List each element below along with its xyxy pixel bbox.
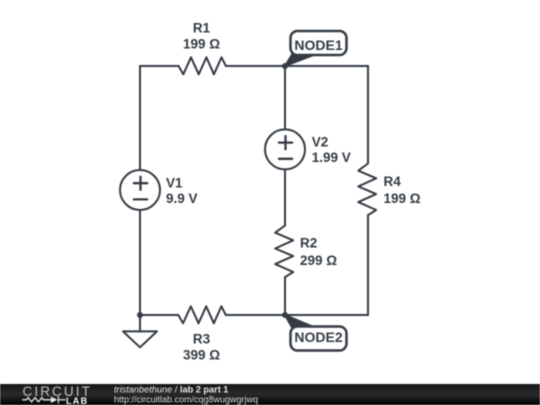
svg-text:NODE2: NODE2 xyxy=(294,329,342,345)
svg-text:V1: V1 xyxy=(166,175,183,190)
svg-text:LAB: LAB xyxy=(66,396,88,405)
svg-text:199 Ω: 199 Ω xyxy=(183,37,220,52)
svg-text:199 Ω: 199 Ω xyxy=(384,191,421,206)
svg-text:299 Ω: 299 Ω xyxy=(300,253,337,268)
svg-text:http://circuitlab.com/cqg8wugw: http://circuitlab.com/cqg8wugwgrjwq xyxy=(114,394,258,404)
svg-text:R2: R2 xyxy=(300,236,317,251)
svg-text:9.9 V: 9.9 V xyxy=(166,191,198,206)
svg-text:1.99 V: 1.99 V xyxy=(312,150,351,165)
svg-text:tristanbethune / lab 2 part 1: tristanbethune / lab 2 part 1 xyxy=(114,384,228,394)
svg-text:R1: R1 xyxy=(193,21,211,36)
svg-text:R4: R4 xyxy=(384,174,402,189)
svg-text:399 Ω: 399 Ω xyxy=(183,348,220,363)
svg-text:V2: V2 xyxy=(312,135,329,150)
svg-text:NODE1: NODE1 xyxy=(294,37,342,53)
svg-text:R3: R3 xyxy=(193,331,211,346)
